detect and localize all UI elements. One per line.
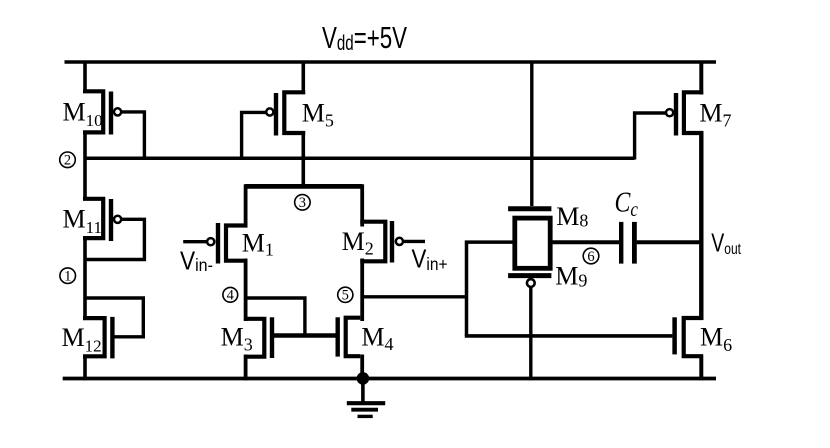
bubble M9 gate (527, 279, 535, 287)
transistor M6 (675, 317, 703, 356)
wire M9 gate to Vss (529, 287, 532, 380)
node 3 bar wire (245, 184, 363, 189)
transistor M5 (242, 92, 306, 159)
wire Vdd to M7 source (699, 61, 703, 95)
transistor M9 gate bar (508, 273, 551, 278)
wire M12 source to Vss (83, 355, 87, 381)
svg-text:Vin-: Vin- (180, 247, 213, 276)
transistor M8 gate bar (508, 206, 551, 211)
svg-text:M1: M1 (242, 229, 274, 260)
svg-text:3: 3 (299, 195, 306, 211)
transistor M4 (338, 317, 361, 356)
wire M3 source to Vss (244, 355, 248, 381)
svg-text:4: 4 (227, 288, 235, 304)
svg-text:M8: M8 (556, 202, 588, 231)
label Vin- (180, 247, 213, 276)
wire M4 source to Vss (360, 355, 364, 381)
node 2 circled label (60, 152, 76, 168)
svg-text:M7: M7 (699, 99, 731, 131)
label Vdd=+5V (322, 20, 407, 54)
svg-text:Vin+: Vin+ (412, 245, 448, 274)
ground (347, 378, 385, 416)
wire Vdd to M8 gate (530, 61, 533, 207)
transistor M1 (183, 223, 247, 264)
wire node4 to M3/M4 gates (246, 298, 305, 336)
wire M7 drain to Vout node to M6 drain (699, 131, 703, 320)
wire M3 gate to M4 gate (272, 333, 338, 337)
wire node5 to M6 gate (465, 334, 673, 338)
svg-text:M4: M4 (361, 322, 393, 354)
capacitor Cc left plate (619, 222, 623, 264)
transistor M10 (83, 91, 144, 159)
wire M2 drain to node5 to M4 drain (360, 259, 364, 322)
svg-text:M2: M2 (342, 227, 374, 259)
capacitor Cc right plate (632, 222, 637, 264)
transistor M8/M9 channel box (515, 218, 550, 268)
wire node1: M11 drain to M12 drain (83, 237, 87, 321)
svg-text:M11: M11 (63, 205, 103, 237)
node 2 rail wire (84, 157, 635, 161)
svg-text:M5: M5 (302, 98, 334, 130)
junction dot at ground (357, 372, 370, 385)
svg-text:M12: M12 (62, 323, 102, 355)
svg-text:5: 5 (342, 288, 349, 304)
node 4 circled label (223, 287, 238, 302)
wire branch vertical and to M8/M9 left terminal (467, 242, 515, 336)
node 1 circled label (60, 268, 76, 284)
node 5 circled label (338, 287, 353, 302)
transistor M2 (360, 221, 425, 263)
wire node5 to transmission gate branch (362, 295, 466, 298)
svg-text:Cc: Cc (615, 187, 639, 222)
svg-text:1: 1 (64, 269, 71, 285)
svg-text:Vdd=+5V: Vdd=+5V (322, 20, 407, 54)
transistor M11 (83, 199, 144, 260)
wire M12 gate to node1 (85, 298, 143, 337)
wire Vdd to M10 source (83, 61, 87, 94)
wire Vss bottom rail (63, 377, 716, 381)
label Vin+ (412, 245, 448, 274)
transistor M3 (248, 317, 273, 358)
label Cc (615, 187, 639, 222)
svg-text:2: 2 (64, 153, 71, 169)
wire M6 source to Vss (699, 355, 703, 381)
wire node3 to M1 source (244, 184, 248, 227)
node 6 circled label (583, 248, 599, 264)
node 3 circled label (295, 195, 311, 211)
wire M10 drain to node2 to M11 source (83, 131, 87, 201)
wire node3 to M2 source (360, 184, 364, 226)
svg-text:6: 6 (587, 249, 594, 265)
wire Vdd top rail (65, 60, 717, 63)
svg-text:M10: M10 (63, 98, 103, 130)
transistor M7 (635, 92, 704, 159)
transistor M12 (83, 317, 112, 359)
label Vout (711, 228, 741, 258)
svg-text:M6: M6 (700, 323, 732, 356)
svg-text:M3: M3 (221, 322, 253, 354)
svg-text:M9: M9 (555, 261, 587, 290)
wire M1 drain to node4 to M3 drain (244, 259, 248, 322)
wire M5 drain to node3 (301, 131, 305, 189)
wire Vdd to M5 source (301, 61, 305, 95)
svg-text:Vout: Vout (711, 228, 741, 258)
wire capacitor to Vout (637, 240, 702, 244)
wire node6: box right terminal to capacitor (552, 240, 620, 244)
